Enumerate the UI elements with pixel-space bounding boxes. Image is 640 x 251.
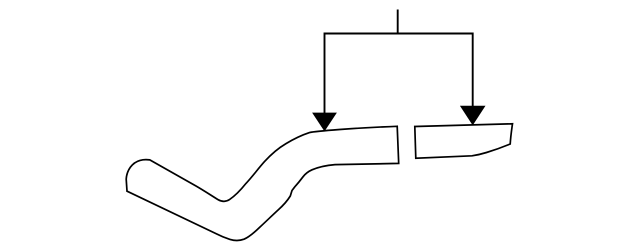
- hose right section (short cut piece): [415, 124, 513, 158]
- hose left section (long S-curved piece): [126, 126, 399, 240]
- callout bracket (horizontal bar with two vertical drops): [325, 34, 473, 114]
- arrowhead left (points to hose left section): [312, 113, 337, 132]
- leader line from part label (cropped above): [397, 10, 399, 34]
- arrowhead right (points to hose right section): [460, 106, 486, 126]
